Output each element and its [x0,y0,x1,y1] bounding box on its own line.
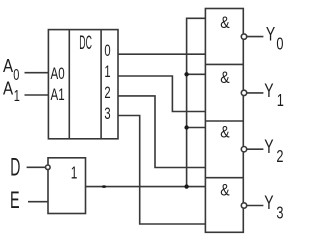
svg-text:0: 0 [276,35,283,55]
svg-text:0: 0 [104,41,110,60]
svg-text:&: & [220,14,230,32]
svg-text:1: 1 [104,62,110,81]
svg-text:&: & [220,123,230,141]
svg-text:2: 2 [104,83,110,102]
svg-text:1: 1 [71,163,78,183]
svg-text:A0: A0 [51,65,65,84]
svg-text:2: 2 [276,147,283,167]
svg-text:0: 0 [13,66,19,83]
svg-text:E: E [10,187,20,214]
svg-text:Y: Y [264,136,273,158]
svg-text:Y: Y [264,80,273,102]
svg-text:&: & [220,69,230,87]
svg-text:3: 3 [104,104,110,123]
svg-text:1: 1 [277,91,284,111]
svg-text:A: A [3,56,14,77]
svg-text:D: D [10,155,20,182]
svg-text:1: 1 [14,87,20,104]
svg-text:3: 3 [276,204,283,224]
svg-text:Y: Y [264,192,273,214]
svg-text:&: & [220,181,230,199]
svg-text:A: A [3,78,14,99]
svg-text:Y: Y [266,23,275,45]
svg-text:DC: DC [79,34,92,55]
svg-text:A1: A1 [51,86,65,105]
